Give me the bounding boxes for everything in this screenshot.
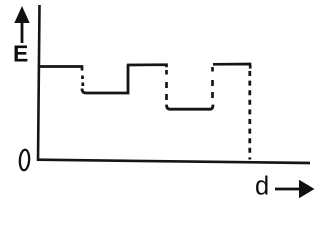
- potential top segment 2: [127, 65, 167, 68]
- label d: [255, 173, 269, 201]
- well 2 left edge dashes: [165, 70, 168, 100]
- svg-text:E: E: [13, 41, 28, 67]
- E axis arrow (up arrow): [14, 6, 29, 43]
- well 1 left edge dots: [81, 76, 84, 87]
- potential top segment 3 (with end hook): [213, 64, 250, 69]
- well 2 right edge dashes: [211, 67, 214, 98]
- svg-text:d: d: [255, 173, 269, 201]
- y-axis (vertical E axis line): [38, 5, 40, 161]
- well 1 bottom and right edge (solid): [82, 66, 128, 94]
- x-axis (horizontal d axis line): [37, 160, 310, 163]
- well 2 bottom (solid, hooked ends): [167, 105, 214, 110]
- label 0 (origin): [19, 149, 30, 170]
- final dashed vertical to x-axis: [248, 71, 251, 160]
- d axis arrow (right arrow): [275, 180, 315, 198]
- label E: [13, 41, 28, 67]
- potential top segment 1 (from y-axis, with end hook): [39, 67, 82, 71]
